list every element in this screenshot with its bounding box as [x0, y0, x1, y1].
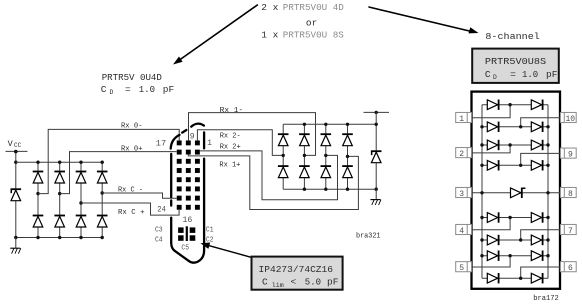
svg-text:C3: C3: [155, 227, 163, 235]
svg-text:C4: C4: [155, 237, 163, 245]
svg-text:Rx 0-: Rx 0-: [121, 122, 143, 130]
zener Z1: [11, 188, 22, 200]
wire Rx 1-: [189, 113, 316, 156]
pin 8: [560, 187, 576, 198]
wire bottom rail (right array): [283, 188, 376, 190]
svg-text:1 x: 1 x: [261, 30, 278, 41]
node left rail zener: [480, 191, 483, 194]
svg-text:=: =: [510, 69, 516, 80]
svg-text:8: 8: [568, 190, 573, 199]
node top rail col3 (right): [324, 123, 327, 126]
node top rail col3: [79, 161, 82, 164]
wire channel row 6: [482, 239, 548, 241]
svg-text:IP4273/74CZ16: IP4273/74CZ16: [259, 264, 334, 275]
wire channel row 4: [482, 164, 548, 166]
diode U1-D5b: [531, 212, 543, 222]
node top rail col4: [101, 161, 104, 164]
zener U1-Z: [511, 188, 526, 198]
diode U1-D7b: [531, 251, 543, 261]
diode D4: [97, 171, 108, 183]
svg-text:C: C: [262, 277, 268, 288]
svg-text:7: 7: [568, 227, 573, 236]
svg-text:C5: C5: [181, 245, 189, 253]
svg-text:D: D: [493, 74, 497, 81]
wire column 1: [37, 162, 39, 237]
wire column 2 (right array): [303, 124, 305, 189]
diode U1-D6b: [531, 235, 543, 245]
svg-text:lim: lim: [272, 282, 284, 289]
diode U1-D2a: [487, 122, 499, 132]
wire Rx 1+: [188, 155, 358, 210]
node left rail row7: [480, 254, 483, 257]
diode D15: [321, 165, 332, 177]
node bottom rail col3 (right): [324, 188, 327, 191]
connector blade C5: [186, 226, 188, 241]
svg-text:16: 16: [183, 215, 193, 225]
pin 7: [560, 224, 576, 235]
diode D10: [299, 133, 310, 145]
node: VCC / top rail junction: [14, 161, 17, 164]
svg-text:17: 17: [156, 139, 166, 149]
svg-text:5.0: 5.0: [305, 278, 321, 288]
wire Rx 0-: [38, 129, 179, 193]
connector shell right segment 1: [203, 132, 205, 148]
svg-text:C1: C1: [206, 227, 214, 235]
wire pin 9 stub: [521, 153, 564, 165]
wire column 3 (right array): [325, 124, 327, 189]
node row5 center: [508, 216, 511, 219]
arrow to connector blade: [200, 243, 251, 258]
node left rail row5: [480, 216, 483, 219]
svg-text:=: =: [125, 84, 131, 95]
diode U1-D3a: [487, 140, 499, 150]
wire supply vertical: [375, 112, 377, 189]
diode U1-D1a: [487, 100, 499, 110]
svg-text:PRTR5V0U 8S: PRTR5V0U 8S: [283, 30, 344, 41]
node right rail row2: [546, 125, 549, 128]
diode D1: [33, 171, 44, 183]
supply rail VCC: [6, 150, 28, 152]
node row2 center: [519, 125, 522, 128]
wire column 4: [101, 162, 103, 237]
svg-text:PRTR5V 0U4D: PRTR5V 0U4D: [102, 72, 162, 83]
node bottom rail col2 (right): [303, 188, 306, 191]
diode D7: [76, 215, 87, 227]
svg-text:<: <: [291, 277, 297, 288]
wire channel row 2: [482, 126, 548, 128]
connector shell top slant: [182, 130, 186, 133]
wire pin 1 stub: [467, 105, 510, 118]
wire right rail U1: [547, 105, 549, 279]
diode D12: [342, 133, 353, 145]
node bottom rail col1: [36, 236, 39, 239]
node bottom rail left corner: [14, 236, 17, 239]
arrow to left circuit: [173, 5, 258, 65]
svg-text:PRTR5V0U 4D: PRTR5V0U 4D: [283, 2, 344, 13]
svg-text:5: 5: [459, 264, 464, 273]
svg-text:Rx C -: Rx C -: [118, 187, 143, 195]
wire column 1 (right array): [282, 124, 284, 189]
node right rail row4: [546, 164, 549, 167]
svg-text:10: 10: [566, 115, 576, 124]
svg-text:bra321: bra321: [356, 233, 381, 241]
node row7 center: [508, 254, 511, 257]
wire channel row 3: [482, 144, 548, 146]
svg-text:3: 3: [459, 190, 464, 199]
svg-text:1.0: 1.0: [522, 70, 538, 80]
pin 2: [456, 148, 472, 159]
node bottom rail col4: [101, 236, 104, 239]
diode U1-D1b: [531, 100, 543, 110]
node mid col1 (right): [282, 154, 285, 157]
pin 9: [560, 148, 576, 159]
wire Rx C+: [81, 203, 179, 215]
diode U1-D4a: [487, 160, 499, 170]
wire pin 10 stub: [521, 118, 564, 127]
wire ground stem (right): [375, 189, 377, 199]
wire pin 2 stub: [467, 145, 510, 153]
svg-text:9: 9: [568, 151, 573, 160]
node top rail col4 (right): [346, 123, 349, 126]
wire pin 6 stub: [521, 267, 564, 278]
connector pin grid 3x8: [177, 140, 200, 209]
wire VCC vertical: [15, 151, 17, 237]
svg-text:2 x: 2 x: [261, 2, 278, 13]
wire Rx 0+: [60, 152, 177, 194]
svg-text:bra172: bra172: [533, 295, 559, 303]
node supply bar: [375, 111, 378, 114]
svg-text:pF: pF: [327, 277, 339, 288]
node left rail row2: [480, 125, 483, 128]
node top rail col2 (right): [303, 123, 306, 126]
wire zener row pin3-pin8: [467, 192, 563, 194]
diode U1-D4b: [531, 160, 543, 170]
wire column 3: [80, 162, 82, 237]
node top rail col2: [58, 161, 61, 164]
diode D2: [54, 171, 65, 183]
connector shell left segment 1: [170, 154, 172, 197]
svg-text:1.0: 1.0: [139, 85, 155, 95]
svg-text:Rx 2+: Rx 2+: [220, 143, 241, 151]
node left rail row3: [480, 143, 483, 146]
node mid col4 (right): [346, 155, 349, 158]
pin 1: [456, 112, 472, 123]
wire channel row 8: [482, 277, 548, 279]
node left rail row4: [480, 164, 483, 167]
connector shell top-left arc: [171, 135, 180, 149]
diode D13: [278, 165, 289, 177]
wire pin 5 stub: [467, 256, 510, 267]
node right rail row3: [546, 143, 549, 146]
part label box PRTR5V0U8S: [472, 49, 559, 83]
svg-text:1: 1: [459, 115, 464, 124]
wire bottom rail: [16, 237, 102, 239]
svg-text:C: C: [485, 69, 491, 80]
IC U1 body: [472, 92, 561, 289]
pin 4: [456, 224, 472, 235]
svg-text:24: 24: [157, 204, 166, 214]
wire left rail U1: [481, 105, 483, 279]
svg-text:Rx 1-: Rx 1-: [220, 107, 244, 115]
diode D5: [33, 215, 44, 227]
svg-text:pF: pF: [546, 69, 558, 80]
wire column 4 (right array): [347, 124, 349, 189]
diode D8: [97, 215, 108, 227]
connector shell left segment 2: [170, 200, 172, 205]
node row8 center: [519, 277, 522, 280]
node row3 center: [508, 143, 511, 146]
diode D14: [299, 165, 310, 177]
wire channel row 7: [482, 255, 548, 257]
diode D6: [54, 215, 65, 227]
wire column 2: [59, 162, 61, 237]
svg-text:PRTR5V0U8S: PRTR5V0U8S: [485, 56, 547, 67]
node left rail row6: [480, 238, 483, 241]
wire Rx C-: [102, 193, 176, 198]
svg-text:6: 6: [568, 264, 573, 273]
node mid col3: [79, 201, 82, 204]
svg-text:1: 1: [207, 139, 212, 148]
connector analog pins C1-C4: [178, 227, 195, 240]
svg-text:Rx 1+: Rx 1+: [219, 161, 240, 169]
diode D3: [76, 171, 87, 183]
diode D9: [278, 133, 289, 145]
node right rail zener: [546, 191, 549, 194]
node bottom rail col2: [58, 236, 61, 239]
node row6 center: [519, 238, 522, 241]
node row1 center: [508, 103, 511, 106]
node right rail row7: [546, 254, 549, 257]
wire channel row 1: [482, 104, 548, 106]
wire channel row 5: [482, 217, 548, 219]
diode U1-D6a: [487, 235, 499, 245]
diode U1-D2b: [531, 122, 543, 132]
svg-text:D: D: [110, 89, 114, 96]
node mid col2 (right): [303, 154, 306, 157]
wire top rail (right array): [283, 123, 376, 125]
svg-text:Rx 0+: Rx 0+: [121, 145, 143, 153]
svg-text:CC: CC: [14, 142, 22, 149]
wire Rx 2+: [200, 151, 338, 200]
diode D11: [321, 133, 332, 145]
ground (right): [370, 200, 381, 205]
svg-text:Rx 2-: Rx 2-: [220, 133, 241, 141]
pin 5: [456, 262, 472, 273]
zener Z2: [371, 150, 382, 162]
svg-text:9: 9: [190, 133, 195, 142]
node bottom rail col3: [79, 236, 82, 239]
pin 10: [560, 112, 576, 123]
diode U1-D3b: [531, 140, 543, 150]
junction under VCC bar: [14, 150, 18, 154]
connector shell bottom curve: [171, 218, 189, 262]
diode D16: [342, 165, 353, 177]
pin 3: [456, 187, 472, 198]
wire top rail: [16, 161, 102, 163]
node mid col3 (right): [324, 154, 327, 157]
diode U1-D8a: [487, 273, 499, 283]
diode U1-D8b: [531, 273, 543, 283]
diode U1-D7a: [487, 251, 499, 261]
node mid col2: [58, 192, 61, 195]
arrow to 8-channel: [368, 7, 478, 34]
connector shell top arc: [191, 124, 204, 127]
wire pin 7 stub: [521, 230, 564, 240]
node bottom rail col4 (right): [346, 188, 349, 191]
svg-text:4: 4: [459, 227, 464, 236]
node top rail col1: [36, 161, 39, 164]
node right rail row5: [546, 216, 549, 219]
diode U1-D5a: [487, 212, 499, 222]
svg-text:pF: pF: [163, 84, 175, 95]
connector shell right segment 2: [189, 159, 204, 263]
node mid col4: [101, 191, 104, 194]
wire ground stem: [15, 238, 17, 249]
svg-text:Rx C +: Rx C +: [118, 209, 145, 217]
supply rail (right): [364, 111, 390, 113]
svg-text:2: 2: [459, 150, 464, 159]
svg-text:or: or: [306, 18, 317, 29]
node top rail supply (right): [375, 123, 378, 126]
wire Rx 2-: [197, 130, 283, 156]
ground: [10, 248, 21, 253]
wire pin 4 stub: [467, 218, 510, 230]
svg-text:C: C: [101, 84, 107, 95]
svg-text:V: V: [8, 139, 14, 149]
pin 6: [560, 262, 576, 273]
node mid col1: [36, 192, 39, 195]
node bottom rail ground (right): [375, 188, 378, 191]
node right rail row6: [546, 238, 549, 241]
callout box IP4273/74CZ16: [252, 257, 343, 290]
svg-text:8-channel: 8-channel: [485, 31, 540, 42]
node row4 center: [519, 164, 522, 167]
